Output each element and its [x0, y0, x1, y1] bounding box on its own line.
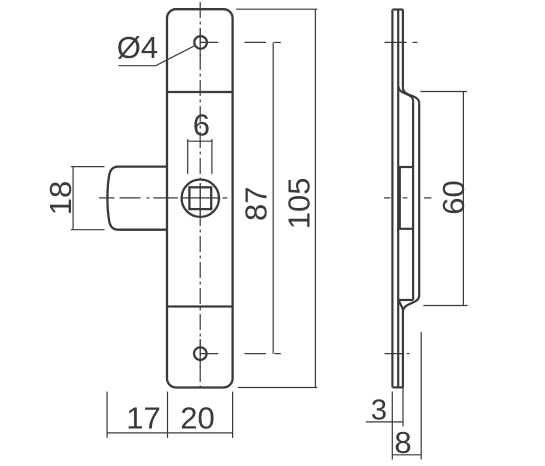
svg-text:Ø4: Ø4 [117, 30, 158, 65]
svg-text:87: 87 [239, 186, 274, 220]
svg-text:17: 17 [126, 401, 160, 436]
svg-text:6: 6 [193, 108, 210, 143]
svg-text:105: 105 [282, 178, 317, 230]
svg-text:60: 60 [436, 180, 471, 214]
svg-text:3: 3 [371, 395, 387, 427]
svg-text:20: 20 [180, 401, 214, 436]
svg-text:8: 8 [394, 425, 411, 460]
svg-text:18: 18 [43, 181, 78, 215]
